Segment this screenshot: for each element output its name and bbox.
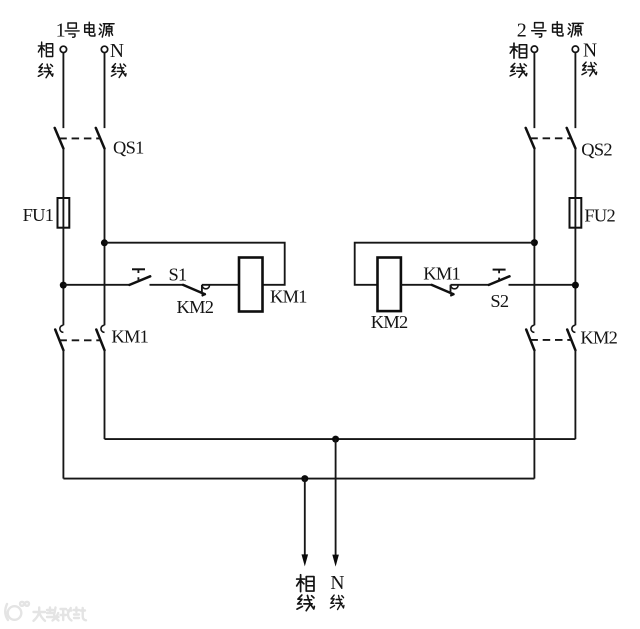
svg-text:KM1: KM1 xyxy=(270,286,307,306)
coil KM2 xyxy=(378,258,401,312)
node C junction dot right phase xyxy=(531,239,538,246)
contact KM1 main pole 1 arc xyxy=(60,325,64,332)
contact KM2 NC blade xyxy=(183,285,205,294)
wire: left neutral QS1 to KM1 main contact xyxy=(104,149,106,326)
fuse FU1 xyxy=(58,198,70,228)
wire: S2 to right neutral rail xyxy=(509,284,576,286)
svg-text:N: N xyxy=(330,573,344,594)
switch QS1 pole 1 blade xyxy=(55,128,64,149)
svg-text:KM2: KM2 xyxy=(371,312,408,332)
wire: left phase KM1 main to lower bus xyxy=(62,350,64,478)
node: source 2 neutral terminal xyxy=(572,46,578,52)
contact KM1 main pole 2 arc xyxy=(101,325,105,332)
svg-text:FU2: FU2 xyxy=(584,206,615,226)
contact KM2 main pole 1 blade xyxy=(526,330,534,351)
switch QS2 pole 2 blade xyxy=(567,128,576,148)
wire: right phase KM2 main to lower bus xyxy=(533,350,535,478)
KM2 main linkage dashed xyxy=(530,339,571,341)
wire: left branch from phase to S1 xyxy=(63,284,129,286)
contact KM1 NC arc xyxy=(451,285,458,289)
svg-text:KM2: KM2 xyxy=(580,327,617,347)
svg-text:N: N xyxy=(583,40,597,61)
contact KM1 NC blade xyxy=(432,285,454,294)
wire: left phase rail terminal to QS1 xyxy=(62,53,64,128)
wire: right neutral FU2 to KM2 main contact xyxy=(574,228,576,326)
QS2 linkage dashed xyxy=(530,137,571,139)
contact KM2 NC bar xyxy=(201,285,203,294)
wire: right neutral KM2 main to upper bus xyxy=(574,350,576,439)
node: source 1 neutral terminal xyxy=(101,46,107,52)
wire: right control top horizontal xyxy=(355,243,535,285)
arrow: neutral output xyxy=(332,555,339,567)
wire: left neutral rail terminal to QS1 xyxy=(104,53,106,128)
contact KM2 NC arc xyxy=(202,285,209,289)
node: source 1 phase terminal xyxy=(60,46,66,52)
contact KM2 main pole 2 arc xyxy=(572,325,576,332)
svg-text:QS2: QS2 xyxy=(581,140,612,160)
wire: right neutral QS2 to FU2 xyxy=(574,148,576,198)
node E junction dot neutral bus xyxy=(332,436,339,443)
wire: S1 to KM2 NC contact xyxy=(150,284,184,286)
pushbutton S2 actuator xyxy=(493,269,506,271)
svg-text:S1: S1 xyxy=(169,264,188,284)
node: source 2 phase terminal xyxy=(531,46,537,52)
pushbutton S2 blade xyxy=(489,276,510,285)
node A junction dot left neutral xyxy=(101,239,108,246)
wire: neutral output drop xyxy=(335,439,337,555)
svg-text:2: 2 xyxy=(517,19,527,41)
wire: left control top horizontal xyxy=(104,243,284,285)
watermark text xyxy=(34,608,87,621)
svg-text:S2: S2 xyxy=(490,291,509,311)
wire: right neutral rail terminal to QS2 xyxy=(574,53,576,129)
wire: left phase FU1 to KM1 main contact xyxy=(62,228,64,326)
svg-text:N: N xyxy=(110,41,124,62)
wire: right phase QS2 to KM2 main contact xyxy=(533,148,535,325)
arrow: phase output xyxy=(302,554,309,566)
pushbutton S1 actuator xyxy=(132,268,145,270)
switch QS1 pole 2 blade xyxy=(96,128,105,149)
label right phase line xyxy=(510,43,526,58)
svg-text:KM1: KM1 xyxy=(111,327,148,347)
contact KM1 NC end tick xyxy=(450,294,454,296)
node D junction dot right neutral xyxy=(572,282,579,289)
svg-text:1: 1 xyxy=(56,20,66,42)
coil KM1 xyxy=(239,258,263,312)
pushbutton S1 blade xyxy=(130,276,151,285)
wire: left phase QS1 to FU1 xyxy=(62,149,64,199)
svg-text:KM1: KM1 xyxy=(423,263,460,283)
contact KM1 NC bar xyxy=(450,285,452,294)
node B junction dot left phase xyxy=(60,282,67,289)
contact KM2 main pole 2 blade xyxy=(567,330,575,351)
contact KM1 main pole 1 blade xyxy=(55,330,63,351)
wire: lower phase bus xyxy=(63,478,534,480)
wire: right phase rail terminal to QS2 xyxy=(533,53,535,129)
node F junction dot phase bus xyxy=(301,475,308,482)
wire: coil KM2 to KM1 NC contact xyxy=(401,284,432,286)
watermark logo xyxy=(5,602,29,620)
svg-text:FU1: FU1 xyxy=(23,205,54,225)
wire: upper neutral bus xyxy=(105,438,576,440)
label output phase line xyxy=(297,575,314,592)
svg-text:KM2: KM2 xyxy=(177,297,214,317)
QS1 linkage dashed xyxy=(59,137,100,139)
contact KM2 NC end tick xyxy=(202,294,206,296)
wire: KM2 NC to coil KM1 xyxy=(202,284,239,286)
svg-text:QS1: QS1 xyxy=(113,138,144,158)
contact KM2 main pole 1 arc xyxy=(531,325,535,332)
label left phase line xyxy=(38,42,52,57)
wire: phase output drop xyxy=(304,479,306,555)
KM1 main linkage dashed xyxy=(59,339,100,341)
contact KM1 main pole 2 blade xyxy=(96,330,104,351)
fuse FU2 xyxy=(570,198,582,228)
wire: left neutral KM1 main to upper bus xyxy=(104,350,106,439)
switch QS2 pole 1 blade xyxy=(526,128,535,148)
wire: KM1 NC to S2 xyxy=(451,284,489,286)
